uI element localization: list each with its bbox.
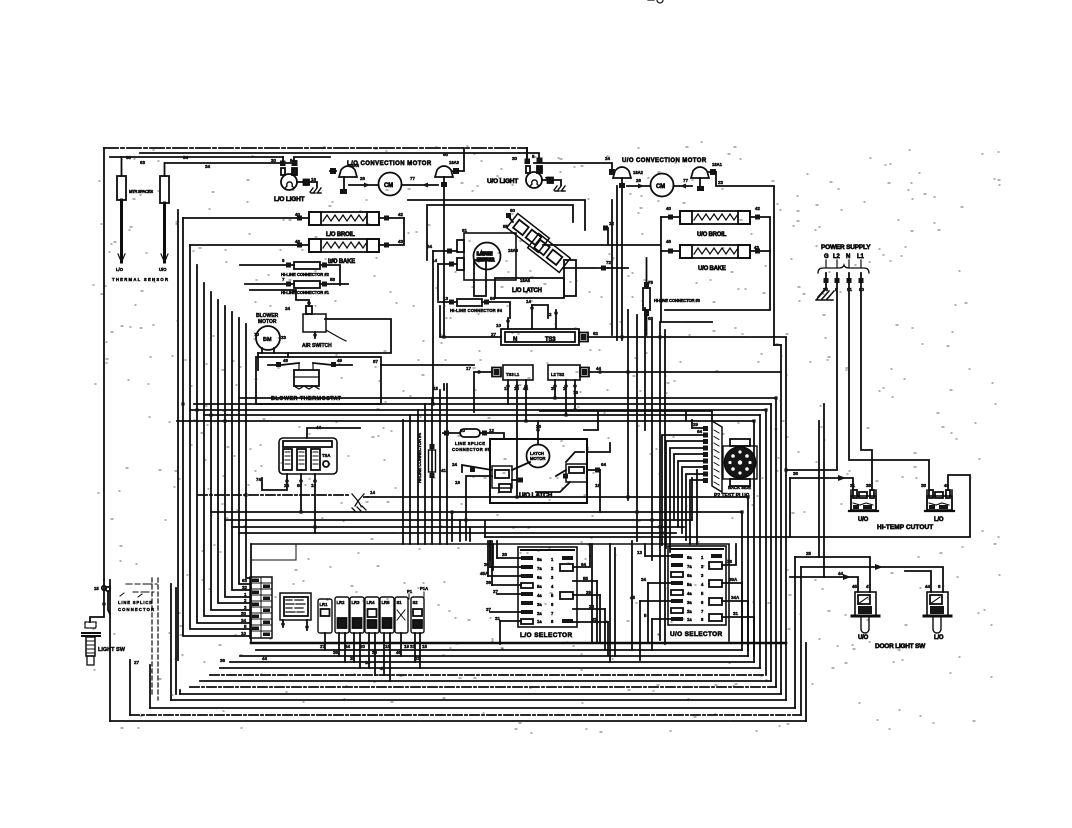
svg-text:U/O BROIL: U/O BROIL xyxy=(697,232,727,238)
svg-text:7: 7 xyxy=(551,611,554,616)
switch air switch xyxy=(250,290,346,349)
svg-text:38: 38 xyxy=(866,483,872,488)
svg-text:BACK SIDE: BACK SIDE xyxy=(728,485,751,490)
right vertical bus group xyxy=(785,338,787,700)
svg-text:56: 56 xyxy=(490,296,496,301)
motor CM (U/O convection) xyxy=(627,174,692,197)
switch L/O latch sw2 (tilted) xyxy=(528,234,571,273)
svg-text:U/O BAKE: U/O BAKE xyxy=(698,266,726,272)
extra staircase left of selector xyxy=(452,512,493,570)
bottom bus left risers xyxy=(109,580,111,721)
svg-text:16: 16 xyxy=(455,480,461,485)
svg-text:6a: 6a xyxy=(687,573,692,578)
svg-text:30: 30 xyxy=(241,611,247,616)
svg-text:5a: 5a xyxy=(537,584,542,589)
svg-text:40: 40 xyxy=(666,206,672,211)
svg-text:LINE SPLICE: LINE SPLICE xyxy=(118,600,152,605)
svg-text:1: 1 xyxy=(551,557,554,562)
svg-text:LINE SPLICE: LINE SPLICE xyxy=(455,441,485,446)
heavy bottom line of enclosure xyxy=(251,642,786,645)
wire: second top line xyxy=(140,152,519,154)
svg-text:44: 44 xyxy=(838,571,844,576)
svg-text:U/O SELECTOR: U/O SELECTOR xyxy=(670,631,723,638)
bottom bus nest xyxy=(256,649,742,651)
svg-text:16: 16 xyxy=(311,483,317,488)
TS3 pins below xyxy=(508,380,526,497)
svg-text:L/O: L/O xyxy=(934,517,944,523)
svg-text:44: 44 xyxy=(925,584,931,589)
relay LR1 xyxy=(318,599,332,650)
svg-text:23: 23 xyxy=(415,656,421,661)
svg-text:20: 20 xyxy=(360,644,366,649)
svg-text:56: 56 xyxy=(330,258,336,263)
svg-text:L2: L2 xyxy=(833,254,840,260)
TSA top feed xyxy=(307,428,360,438)
svg-text:54: 54 xyxy=(427,244,433,249)
svg-text:44: 44 xyxy=(316,425,322,430)
svg-text:LR2: LR2 xyxy=(337,600,346,605)
svg-text:2: 2 xyxy=(586,446,589,451)
thermostat U/O hi-temp cutout xyxy=(849,490,878,523)
svg-text:6a: 6a xyxy=(537,575,542,580)
svg-text:27: 27 xyxy=(491,332,497,337)
box blower thermostat xyxy=(256,353,381,404)
svg-text:12: 12 xyxy=(609,221,615,226)
svg-text:55: 55 xyxy=(583,576,589,581)
svg-text:34: 34 xyxy=(241,618,247,623)
svg-text:4: 4 xyxy=(551,584,554,589)
top scan mark xyxy=(648,0,663,3)
svg-text:42: 42 xyxy=(755,206,761,211)
svg-text:HI-LINE CONNECTOR #2: HI-LINE CONNECTOR #2 xyxy=(281,272,330,277)
svg-text:8: 8 xyxy=(551,619,554,624)
svg-text:P1A: P1A xyxy=(420,586,428,591)
svg-text:61: 61 xyxy=(462,228,468,233)
dashed risers at light sw xyxy=(152,578,158,700)
thermostat L/O hi-temp cutout xyxy=(925,490,954,523)
svg-text:HI-TEMP CUTOUT: HI-TEMP CUTOUT xyxy=(877,524,933,531)
svg-text:30: 30 xyxy=(484,562,490,567)
svg-text:S1: S1 xyxy=(397,600,403,605)
ground mid xyxy=(352,494,366,512)
svg-text:LR5: LR5 xyxy=(382,600,391,605)
ground power xyxy=(816,288,834,300)
svg-text:63: 63 xyxy=(242,578,248,583)
svg-text:14: 14 xyxy=(365,660,371,665)
svg-text:64: 64 xyxy=(581,562,587,567)
hi-line connector (latch) xyxy=(438,299,510,318)
svg-text:27: 27 xyxy=(493,589,499,594)
svg-text:29: 29 xyxy=(586,590,592,595)
svg-text:55: 55 xyxy=(503,224,509,229)
svg-text:60: 60 xyxy=(443,152,449,157)
U/O selector right wires xyxy=(722,544,754,617)
svg-text:N: N xyxy=(846,254,850,260)
svg-text:25: 25 xyxy=(806,551,812,556)
svg-text:DOOR LIGHT SW: DOOR LIGHT SW xyxy=(875,643,926,650)
heater element U/O BAKE xyxy=(661,245,770,272)
ground at L/O light xyxy=(310,188,321,193)
svg-text:46: 46 xyxy=(396,650,402,655)
svg-text:16: 16 xyxy=(545,176,551,181)
svg-text:80: 80 xyxy=(859,287,865,292)
extra selector mid verticals xyxy=(592,541,632,662)
svg-text:L1: L1 xyxy=(857,254,864,260)
svg-text:15: 15 xyxy=(94,586,99,591)
svg-text:THERMAL SENSOR: THERMAL SENSOR xyxy=(112,277,168,282)
box U/O latch assembly xyxy=(490,439,587,503)
svg-text:1a: 1a xyxy=(537,619,542,624)
svg-text:MOTOR: MOTOR xyxy=(530,456,546,461)
bottom bus right risers xyxy=(794,557,796,708)
svg-text:44: 44 xyxy=(523,386,529,391)
mid feed wires xyxy=(444,305,548,390)
svg-text:L/O LIGHT: L/O LIGHT xyxy=(274,196,305,203)
lamp L/O light xyxy=(274,157,330,203)
svg-text:U/O: U/O xyxy=(858,517,869,523)
svg-text:30: 30 xyxy=(372,650,378,655)
svg-text:5: 5 xyxy=(551,593,554,598)
svg-text:18: 18 xyxy=(504,386,510,391)
power wire N xyxy=(849,273,929,490)
switch L/O latch sw1 (tilted) xyxy=(507,214,550,253)
svg-text:1: 1 xyxy=(701,555,704,560)
power wire L1 xyxy=(861,273,872,490)
svg-text:33: 33 xyxy=(126,155,132,160)
svg-text:3a: 3a xyxy=(537,602,542,607)
svg-text:LIGHT SW: LIGHT SW xyxy=(98,647,126,653)
svg-text:2a: 2a xyxy=(537,611,542,616)
switch L/O door light sw xyxy=(924,592,951,641)
svg-text:BM: BM xyxy=(263,337,272,343)
wires into U/O latch xyxy=(462,465,492,540)
svg-text:19: 19 xyxy=(404,644,410,649)
wire 774 to bus xyxy=(774,344,781,346)
svg-text:41: 41 xyxy=(441,468,447,473)
SECTION:NUMBERS xyxy=(126,152,950,671)
svg-text:46: 46 xyxy=(666,239,672,244)
relay LR4 xyxy=(365,597,379,675)
svg-text:8: 8 xyxy=(938,584,941,589)
svg-text:8a: 8a xyxy=(687,555,692,560)
plug 18A2 xyxy=(609,167,644,340)
svg-text:68: 68 xyxy=(648,316,654,321)
svg-text:10: 10 xyxy=(514,386,520,391)
motor CM (L/O convection) xyxy=(349,173,438,196)
svg-text:3: 3 xyxy=(551,575,554,580)
svg-text:64: 64 xyxy=(601,462,607,467)
svg-text:POWER SUPPLY: POWER SUPPLY xyxy=(821,244,871,251)
door sw wires xyxy=(795,557,870,592)
svg-text:7: 7 xyxy=(701,609,704,614)
svg-text:18A1: 18A1 xyxy=(712,162,723,167)
wire 18A1 right drop xyxy=(716,172,774,345)
switch output wires xyxy=(508,216,660,268)
svg-text:S2: S2 xyxy=(413,600,419,605)
svg-text:U/O: U/O xyxy=(159,267,167,272)
svg-text:24: 24 xyxy=(452,462,458,467)
svg-text:72: 72 xyxy=(606,260,612,265)
svg-text:HI-LINE CONNECTOR #4: HI-LINE CONNECTOR #4 xyxy=(417,433,422,483)
svg-text:26: 26 xyxy=(502,552,508,557)
svg-text:5a: 5a xyxy=(687,582,692,587)
svg-text:36: 36 xyxy=(220,658,226,663)
svg-text:31: 31 xyxy=(495,616,501,621)
svg-text:2: 2 xyxy=(549,312,552,317)
switch light sw xyxy=(82,622,126,665)
svg-text:34: 34 xyxy=(205,164,211,169)
thermal sensor U/O xyxy=(159,163,169,272)
svg-text:L/O BROIL: L/O BROIL xyxy=(326,232,355,238)
power wire G xyxy=(825,273,827,288)
left staircase into enclosure xyxy=(251,544,296,560)
svg-text:18: 18 xyxy=(595,483,601,488)
svg-text:63: 63 xyxy=(140,160,146,165)
mid horizontal bundle xyxy=(194,403,771,405)
svg-text:AIR SWITCH: AIR SWITCH xyxy=(302,343,332,349)
svg-text:L2 TS2: L2 TS2 xyxy=(551,372,565,377)
svg-text:6: 6 xyxy=(551,602,554,607)
terminal strip xyxy=(250,577,272,638)
svg-text:43: 43 xyxy=(398,239,404,244)
svg-text:40: 40 xyxy=(295,212,301,217)
svg-text:U/O LATCH: U/O LATCH xyxy=(519,492,553,499)
svg-text:4a: 4a xyxy=(537,593,542,598)
svg-text:15: 15 xyxy=(433,386,439,391)
svg-text:30: 30 xyxy=(271,158,277,163)
svg-text:18A4: 18A4 xyxy=(349,163,360,168)
terminal block TS3 L1 xyxy=(474,365,533,412)
svg-text:LR1: LR1 xyxy=(320,602,329,607)
relay S1 xyxy=(395,597,408,656)
svg-text:81: 81 xyxy=(847,287,853,292)
relay S2 xyxy=(411,597,424,668)
svg-text:48: 48 xyxy=(283,358,289,363)
svg-text:U/O CONVECTION MOTOR: U/O CONVECTION MOTOR xyxy=(622,158,707,164)
wire: latch enclosure top xyxy=(408,200,585,230)
motor L/O latch motor xyxy=(457,233,516,280)
svg-text:7a: 7a xyxy=(537,566,542,571)
hi-line connector 2 xyxy=(240,262,340,285)
wire: outer frame left xyxy=(103,148,105,580)
svg-text:6: 6 xyxy=(701,600,704,605)
svg-text:7a: 7a xyxy=(687,564,692,569)
svg-text:N: N xyxy=(513,337,517,343)
svg-text:40: 40 xyxy=(944,483,950,488)
svg-text:39: 39 xyxy=(551,386,557,391)
svg-text:24: 24 xyxy=(284,483,290,488)
svg-text:L/O: L/O xyxy=(116,267,124,272)
plug 18A4 xyxy=(330,163,360,194)
svg-text:37: 37 xyxy=(486,607,492,612)
svg-text:CM: CM xyxy=(384,183,393,189)
svg-text:32: 32 xyxy=(242,585,248,590)
module board xyxy=(280,593,311,630)
TSA pins below xyxy=(262,474,315,533)
svg-text:47: 47 xyxy=(380,666,386,671)
svg-text:18: 18 xyxy=(385,644,391,649)
svg-text:58: 58 xyxy=(330,277,336,282)
lamp U/O light xyxy=(487,148,561,188)
relay LR5 xyxy=(380,597,394,681)
heater element L/O BROIL xyxy=(183,212,404,238)
box control enclosure xyxy=(251,544,729,641)
svg-text:MOTOR: MOTOR xyxy=(258,319,277,325)
svg-text:44: 44 xyxy=(596,366,602,371)
svg-text:64: 64 xyxy=(697,429,703,434)
splice connector 5 xyxy=(443,429,504,452)
bracket xyxy=(818,265,869,273)
svg-text:7: 7 xyxy=(282,277,285,282)
svg-text:45: 45 xyxy=(852,584,858,589)
switch U/O selector xyxy=(668,546,726,638)
svg-text:62: 62 xyxy=(593,331,599,336)
svg-text:70: 70 xyxy=(254,332,260,337)
svg-text:25: 25 xyxy=(350,656,356,661)
wire: u/o light top feed xyxy=(526,148,528,163)
left vertical bus group xyxy=(183,218,250,636)
relay LR2 xyxy=(335,597,349,662)
TS3 left wire xyxy=(440,306,501,337)
svg-text:LATCH: LATCH xyxy=(477,251,493,256)
wire thermostat to TS3L1 xyxy=(381,364,474,366)
svg-text:8: 8 xyxy=(701,617,704,622)
svg-text:4a: 4a xyxy=(687,591,692,596)
wire: sensor top link xyxy=(165,162,294,164)
svg-text:35: 35 xyxy=(823,287,829,292)
svg-text:8a: 8a xyxy=(537,557,542,562)
svg-text:10: 10 xyxy=(496,323,502,328)
connector P2 round plug xyxy=(723,439,757,486)
svg-text:49: 49 xyxy=(337,358,343,363)
hi-line connector 3 xyxy=(643,258,701,335)
svg-text:18A3: 18A3 xyxy=(449,160,460,165)
wires P2 pins xyxy=(686,412,703,428)
svg-text:28: 28 xyxy=(589,604,595,609)
svg-text:10: 10 xyxy=(460,428,466,433)
wire: third top line left xyxy=(110,156,283,158)
svg-text:42: 42 xyxy=(398,212,404,217)
svg-text:36: 36 xyxy=(793,471,799,476)
svg-text:34: 34 xyxy=(641,577,647,582)
svg-text:CM: CM xyxy=(656,184,665,190)
switch L/O selector xyxy=(518,547,577,639)
connector P2 pin strip xyxy=(703,421,722,492)
svg-text:54: 54 xyxy=(183,155,189,160)
L/O selector left wires xyxy=(488,558,521,621)
svg-text:75: 75 xyxy=(648,280,654,285)
wire right of latch going up xyxy=(584,412,610,452)
svg-text:BLOWER THERMOSTAT: BLOWER THERMOSTAT xyxy=(271,396,342,402)
svg-text:38: 38 xyxy=(921,483,927,488)
svg-text:23: 23 xyxy=(718,180,724,185)
motor U/O latch motor xyxy=(527,421,550,468)
svg-text:P2 TEST PLUG: P2 TEST PLUG xyxy=(714,493,750,499)
svg-text:28: 28 xyxy=(536,424,542,429)
svg-text:77: 77 xyxy=(683,178,689,183)
svg-text:60: 60 xyxy=(510,208,516,213)
svg-text:24: 24 xyxy=(605,156,611,161)
svg-text:U/O: U/O xyxy=(858,635,869,641)
svg-text:TS3: TS3 xyxy=(545,337,556,343)
svg-text:LR3: LR3 xyxy=(352,600,361,605)
svg-text:17: 17 xyxy=(466,366,472,371)
svg-text:45A: 45A xyxy=(480,571,489,576)
wires to latch motor xyxy=(433,251,457,264)
switch U/O door light sw xyxy=(852,592,879,641)
relay pin jogs xyxy=(325,650,420,681)
wire u/o light to 18A2 xyxy=(534,163,612,172)
svg-text:U/O LIGHT: U/O LIGHT xyxy=(487,178,518,185)
junction dots xyxy=(181,335,787,534)
svg-text:1a: 1a xyxy=(687,617,692,622)
svg-text:46: 46 xyxy=(295,239,301,244)
svg-text:14: 14 xyxy=(370,490,376,495)
svg-text:26: 26 xyxy=(727,559,733,564)
wire hi-temp feed xyxy=(790,478,853,490)
svg-text:31: 31 xyxy=(410,644,416,649)
svg-text:18A6: 18A6 xyxy=(508,248,519,253)
svg-text:3a: 3a xyxy=(687,600,692,605)
svg-text:47: 47 xyxy=(866,584,872,589)
svg-text:P1: P1 xyxy=(407,589,413,594)
svg-text:MTR SPACES: MTR SPACES xyxy=(129,189,153,194)
svg-text:HI-LINE CONNECTOR #3: HI-LINE CONNECTOR #3 xyxy=(654,298,701,303)
terminal block L2 TS2 xyxy=(548,365,781,380)
plate L/O LATCH xyxy=(474,260,576,298)
svg-text:76: 76 xyxy=(573,390,579,395)
svg-text:CONNECTOR: CONNECTOR xyxy=(118,607,154,612)
splice connector labels (light sw) xyxy=(118,584,157,612)
svg-text:G: G xyxy=(824,254,829,260)
U/O selector left wires xyxy=(640,556,671,619)
svg-text:TSA: TSA xyxy=(322,453,330,458)
svg-text:27: 27 xyxy=(320,644,326,649)
svg-text:L/O: L/O xyxy=(934,635,944,641)
TS3 pins above xyxy=(508,305,556,329)
hi-line connector 1 xyxy=(245,281,348,295)
thermal sensor L/O xyxy=(116,157,126,272)
connector hi-line 4 xyxy=(429,450,436,472)
switch U/O latch right xyxy=(536,452,600,492)
svg-text:31: 31 xyxy=(850,483,856,488)
switch U/O latch left xyxy=(492,462,530,492)
relay block TSA xyxy=(262,428,360,533)
wire: u/o element feed box xyxy=(661,217,770,322)
svg-text:44: 44 xyxy=(345,644,351,649)
plug 18A3 xyxy=(435,148,464,335)
svg-text:9: 9 xyxy=(282,258,285,263)
lower-mid horizontals xyxy=(198,494,348,496)
svg-text:L/O SELECTOR: L/O SELECTOR xyxy=(520,632,573,639)
wire hi-temp bottom loop xyxy=(485,475,970,537)
central vertical feeds xyxy=(611,200,613,335)
svg-text:24: 24 xyxy=(285,306,291,311)
svg-text:LR4: LR4 xyxy=(367,600,376,605)
svg-text:31: 31 xyxy=(733,611,739,616)
svg-text:4: 4 xyxy=(701,582,704,587)
svg-text:26: 26 xyxy=(636,178,642,183)
svg-text:5: 5 xyxy=(644,613,647,618)
heater element L/O BAKE xyxy=(190,218,404,265)
wires light sw xyxy=(90,580,104,622)
svg-text:44: 44 xyxy=(262,656,268,661)
relay LR3 xyxy=(350,597,364,668)
svg-text:L/O CONVECTION MOTOR: L/O CONVECTION MOTOR xyxy=(347,161,432,167)
wire: outer frame top dash-dot xyxy=(104,147,527,149)
svg-text:18A2: 18A2 xyxy=(633,170,644,175)
plug 18A1 xyxy=(691,162,723,191)
